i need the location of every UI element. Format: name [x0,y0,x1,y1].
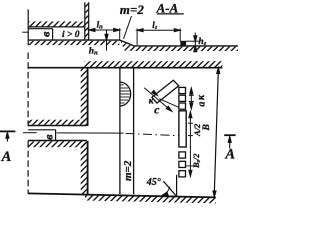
plan: left dashed outline [27,53,29,127]
plan: wing 45 deg diagonal [163,181,176,196]
plan: conduit inner line and end [28,129,55,131]
plan: bottom wall hatch [85,195,216,204]
svg-text:в: в [41,134,55,140]
dimension stack right of row [189,112,191,177]
plan: axis dash-dot part [126,133,184,136]
svg-text:i > 0: i > 0 [62,30,80,40]
profile: conduit ceiling line [28,28,52,30]
plan: baffle squares lower [179,152,186,177]
svg-text:к: к [196,94,207,100]
plan: axis solid part [57,132,124,134]
plan: channel top wall band [28,120,86,125]
plan: tilted baffle block detail [152,80,179,103]
plan: drop upper edge line [119,68,121,194]
plan: velocity diagram half-ellipse [120,82,131,106]
plan: 45 deg arc [163,187,171,196]
dimension l_p [89,28,120,40]
dimension l_g [137,28,180,45]
dimension a (block pitch) [190,88,192,108]
plan: wing end vertical [176,175,178,196]
svg-text:lг: lг [152,20,158,31]
svg-text:hг: hг [198,37,206,47]
plan: drop lower edge line [133,68,135,194]
dimension B line [214,68,218,197]
profile: left headwall line [27,9,29,45]
plan: baffle squares upper [179,87,186,109]
svg-text:А: А [224,147,235,163]
svg-text:45°: 45° [146,177,161,188]
profile: upper bed hatch [28,41,119,45]
profile: upper bed line [28,39,120,41]
profile: top wall band hatch [29,21,85,26]
plan: headwall face line [87,68,89,126]
profile: sill top line [186,40,199,42]
profile: headwall strip hatch [85,3,88,40]
svg-text:А/2: А/2 [192,123,202,137]
profile: lower bed line [133,45,238,47]
profile: left tick at conduit axis [22,31,29,33]
svg-text:А: А [1,149,12,165]
dimension h_p arrow [106,30,108,51]
profile: headwall strip lines [84,2,86,40]
section mark A left [0,130,15,132]
plan: headwall face hatch [81,69,87,126]
plan: top wall hatch [84,61,222,67]
profile: lower bed hatch [134,47,238,51]
svg-text:с: с [154,105,159,117]
plan: block dimension arrow [144,88,171,111]
dimension h_g [194,33,196,51]
svg-text:а: а [196,102,207,107]
profile: top wall band line [28,26,85,28]
profile: slope hatch [121,41,135,51]
svg-text:Вг/2: Вг/2 [191,153,202,169]
plan: bottom wall line [28,193,216,197]
profile: conduit end line [52,28,54,40]
svg-text:в: в [38,31,52,37]
plan: axis tick left [23,132,37,134]
svg-text:В: В [202,124,212,131]
plan: central slot [179,111,186,147]
svg-text:m=2: m=2 [122,160,134,181]
plan: top wall line [28,67,223,69]
svg-text:lп: lп [97,19,104,30]
profile: slope line [120,40,134,46]
section mark A right [224,134,235,136]
svg-text:m=2: m=2 [120,2,145,17]
profile: end sill (filled) [180,41,186,46]
plan: block leader line [159,99,183,110]
svg-text:hп: hп [89,47,98,57]
svg-text:А-А: А-А [156,0,179,15]
plan: channel bottom wall band [28,140,87,142]
